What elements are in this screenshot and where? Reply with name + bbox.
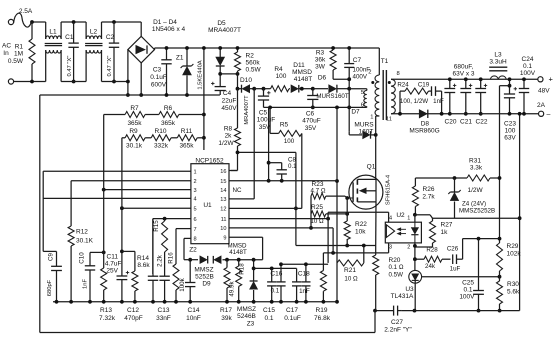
svg-text:3W: 3W [315,64,326,71]
svg-text:R9: R9 [129,128,138,135]
svg-text:R27: R27 [441,222,453,229]
svg-text:1: 1 [194,170,197,176]
svg-text:100V: 100V [520,70,536,77]
svg-text:5.6k: 5.6k [507,289,520,296]
svg-text:C18: C18 [298,271,310,278]
svg-text:400V: 400V [353,74,368,81]
wire TL431 ref [422,276,500,278]
wire HV sense drop [203,48,205,150]
svg-text:16: 16 [220,169,226,175]
svg-text:C24: C24 [522,56,534,63]
svg-text:3: 3 [194,188,197,194]
svg-text:8.6k: 8.6k [137,262,150,269]
svg-text:7: 7 [194,227,197,233]
wire opto collector to pin11 line [328,211,389,213]
wire source line [296,245,376,247]
svg-text:MSR860G: MSR860G [409,128,439,135]
svg-text:0.1uF: 0.1uF [150,74,167,81]
wire pin6 to C12 [153,218,191,220]
svg-text:R22: R22 [355,221,367,228]
svg-text:MMSZ: MMSZ [194,267,213,274]
svg-text:C11: C11 [107,254,119,261]
wire top rail to R1 [33,21,46,23]
svg-text:0.1: 0.1 [264,315,273,322]
svg-text:100, 1/2W: 100, 1/2W [400,98,428,105]
svg-text:D9: D9 [202,281,211,288]
svg-text:5252B: 5252B [195,274,214,281]
wire VCC branch [238,151,296,153]
svg-text:0.5W: 0.5W [389,272,404,279]
svg-text:R16: R16 [168,252,175,264]
svg-text:1: 1 [370,115,373,121]
svg-text:1.5KE440A: 1.5KE440A [198,60,204,89]
wire R7 column [103,115,105,190]
svg-text:R26: R26 [423,186,435,193]
node line opto anode [415,214,430,216]
svg-text:12: 12 [220,207,226,213]
svg-text:C3: C3 [153,67,162,74]
svg-text:R30: R30 [507,281,519,288]
svg-text:10: 10 [220,226,226,232]
svg-text:R7: R7 [130,105,139,112]
svg-text:332k: 332k [154,143,169,150]
svg-text:0.1: 0.1 [463,287,472,294]
svg-text:R17: R17 [220,307,232,314]
svg-text:R10: R10 [155,128,167,135]
svg-text:Z1: Z1 [176,55,184,62]
svg-text:Z3: Z3 [247,320,255,327]
wire pin4 [43,197,191,199]
svg-text:600V: 600V [151,82,167,89]
svg-text:C20: C20 [445,119,457,126]
svg-text:100k: 100k [179,277,186,291]
svg-text:MMSZ: MMSZ [237,306,256,313]
wire bottom rail left [14,81,46,83]
wire C11 R14 node [122,250,135,252]
wire caps node line [281,263,328,265]
svg-text:L1: L1 [49,29,57,36]
svg-text:25V: 25V [106,268,118,275]
svg-text:MMSD: MMSD [292,69,312,76]
svg-text:In: In [3,50,9,57]
svg-text:365k: 365k [127,120,142,127]
wire bottom rail L1 to L2 [61,81,86,83]
svg-text:R8: R8 [224,126,233,133]
svg-text:10 Ω: 10 Ω [344,276,358,283]
svg-text:C21: C21 [460,119,472,126]
svg-text:6: 6 [194,217,197,223]
svg-text:Q1: Q1 [367,164,376,171]
frame outline [39,95,41,333]
wire pin2 to R12 [71,180,191,182]
svg-text:D10: D10 [240,77,252,84]
svg-text:0.5W: 0.5W [246,67,262,74]
svg-text:C12: C12 [127,307,139,314]
svg-text:2.5A: 2.5A [19,8,33,15]
svg-text:11: 11 [386,117,392,123]
wire VCC to C5 [254,88,263,90]
svg-text:560k: 560k [246,60,261,67]
svg-text:365k: 365k [179,143,194,150]
svg-text:D5: D5 [217,20,226,27]
svg-text:4: 4 [194,197,197,203]
svg-text:36k: 36k [315,57,326,64]
svg-text:102k: 102k [507,251,522,258]
svg-text:NC: NC [233,187,242,194]
svg-text:U1: U1 [203,202,212,209]
svg-text:30.1k: 30.1k [126,143,143,150]
svg-text:U2: U2 [396,212,405,219]
svg-text:4148T: 4148T [294,76,312,83]
svg-text:2k: 2k [225,133,233,140]
secondary ground bus [402,310,520,312]
wire pin7 to R16 [176,228,191,230]
wire R8 to pin16 [231,170,238,172]
svg-text:680uF,: 680uF, [454,64,474,71]
wire aux gnd column [336,107,338,301]
svg-text:9: 9 [223,236,226,242]
svg-text:C14: C14 [188,307,200,314]
wire bridge AC left vertex [127,50,129,95]
svg-text:R19: R19 [316,307,328,314]
svg-text:39k: 39k [221,315,232,322]
svg-text:49.9k: 49.9k [229,281,236,297]
svg-text:2: 2 [368,70,371,76]
svg-text:1nF: 1nF [299,288,310,295]
svg-text:R24: R24 [397,82,409,89]
svg-text:33nF: 33nF [156,315,171,322]
svg-text:1N5406 x 4: 1N5406 x 4 [152,26,186,33]
T1 secondary [390,78,392,80]
wire secondary bottom [391,113,450,115]
svg-text:7.32k: 7.32k [99,315,116,322]
svg-text:C15: C15 [263,307,275,314]
svg-text:2A: 2A [537,102,546,109]
svg-text:1: 1 [407,216,410,222]
AC input terminal top [8,19,13,24]
svg-text:4: 4 [389,216,392,222]
wire D5 cathode to R2 [220,73,237,75]
svg-text:C17: C17 [286,307,298,314]
svg-text:4.7uF: 4.7uF [105,261,122,268]
svg-text:L2: L2 [90,29,98,36]
svg-text:3.3k: 3.3k [470,165,483,172]
svg-text:100: 100 [284,138,295,145]
svg-text:1M: 1M [14,51,23,58]
wire Q1 gate line [345,196,353,198]
svg-text:3: 3 [389,245,392,251]
wire top rail L1 to C1 [61,21,86,23]
svg-text:–: – [547,111,551,118]
svg-text:15: 15 [220,179,226,185]
svg-text:2.2k: 2.2k [157,254,164,267]
svg-text:C23: C23 [504,121,516,128]
wire pin1 to C9 node [43,170,191,172]
svg-text:R31: R31 [469,158,481,165]
svg-text:C10: C10 [79,252,86,264]
svg-text:C25: C25 [462,280,474,287]
wire aux ground line [264,106,367,108]
svg-text:R5: R5 [280,122,289,129]
fuse F1 2.5A [14,13,34,27]
svg-text:C26: C26 [447,246,459,253]
svg-text:63V: 63V [504,135,516,142]
AC input terminal bottom [8,79,13,84]
wire pin10 to opto emitter line [229,227,333,229]
svg-text:1uF: 1uF [450,266,461,273]
svg-text:L3: L3 [494,52,502,59]
svg-text:2: 2 [194,179,197,185]
svg-text:3.3uH: 3.3uH [489,59,507,66]
svg-text:4148T: 4148T [229,249,247,256]
svg-text:11: 11 [221,217,227,223]
wire pin16 stub [229,170,238,172]
svg-text:5: 5 [194,207,197,213]
svg-text:MURS: MURS [354,122,374,129]
svg-text:0.1: 0.1 [288,163,297,170]
wire pin8 to Z2 row [184,237,191,239]
wire +48V sense drop [500,85,510,87]
svg-text:Z4 (24V): Z4 (24V) [462,201,486,208]
svg-text:D6: D6 [318,75,327,82]
svg-text:R29: R29 [507,243,519,250]
svg-text:2: 2 [407,245,410,251]
svg-text:35V: 35V [305,125,317,132]
wire pin12 [229,207,302,209]
svg-text:R21: R21 [344,267,356,274]
svg-text:R6: R6 [164,105,173,112]
svg-text:C22: C22 [476,119,488,126]
svg-text:63V x 3: 63V x 3 [452,71,474,78]
svg-text:76.8k: 76.8k [314,315,331,322]
svg-text:24k: 24k [425,263,436,270]
svg-text:R2: R2 [246,53,255,60]
svg-text:C9: C9 [48,252,55,260]
svg-text:C2: C2 [106,34,115,41]
svg-text:R20: R20 [389,257,401,264]
svg-text:5246B: 5246B [237,313,256,320]
svg-text:48V: 48V [538,88,550,95]
wire pin5 to R9 C11 node [122,207,191,209]
svg-text:1nF: 1nF [83,279,89,289]
svg-text:1nF: 1nF [433,98,444,105]
svg-text:14: 14 [220,188,226,194]
svg-text:MRA4007T: MRA4007T [208,27,241,34]
wire pin15 ground line [229,180,337,182]
svg-text:13: 13 [220,197,226,203]
wire top rail L2 to bridge [102,21,142,23]
svg-text:10nF: 10nF [186,315,201,322]
svg-text:0.1uF: 0.1uF [284,315,301,322]
svg-text:AC: AC [2,43,11,50]
wire Z3 node to C15 C17 [254,267,297,269]
svg-text:100uF: 100uF [257,117,275,124]
svg-text:D8: D8 [421,121,430,128]
wire R25 to gate [346,198,348,221]
svg-text:2.7k: 2.7k [422,194,435,201]
svg-text:0.47 "X": 0.47 "X" [67,56,73,77]
resistor R1 [29,39,35,64]
svg-text:R13: R13 [100,307,112,314]
svg-text:Z2: Z2 [189,247,197,254]
svg-text:+: + [549,75,554,84]
svg-text:MRA4007T: MRA4007T [244,95,250,125]
wire pin11 to opto [229,218,328,220]
svg-text:0.47 "X": 0.47 "X" [107,56,113,77]
svg-text:0.1 Ω: 0.1 Ω [389,264,404,271]
wire pin3 to R7 R13 node [104,189,191,191]
svg-text:365k: 365k [161,120,176,127]
svg-text:R28: R28 [426,247,438,254]
svg-text:10k: 10k [355,229,366,236]
wire pin13 VCC [229,198,254,200]
svg-text:SFH615A-4: SFH615A-4 [386,174,392,205]
T1 core [382,70,384,120]
svg-text:R3: R3 [316,50,325,57]
svg-text:C19: C19 [418,82,430,89]
svg-text:C13: C13 [158,307,170,314]
svg-text:R12: R12 [76,229,88,236]
wire output bottom rail [450,113,541,115]
svg-text:100: 100 [505,128,516,135]
svg-text:C6: C6 [306,111,315,118]
svg-text:D1 – D4: D1 – D4 [153,19,177,26]
svg-text:R4: R4 [274,66,283,73]
svg-text:1k: 1k [441,229,449,236]
wire secondary top to output rail [391,78,540,80]
wire VCC down to pin13 [253,89,255,199]
svg-text:T1: T1 [381,58,389,65]
DC minus rail [40,94,220,96]
wire Q1 drain to T1 pin1 [375,135,377,180]
wire pin9 to Z2 row [229,236,263,238]
svg-text:1/2W: 1/2W [468,187,484,194]
svg-text:100V: 100V [459,294,475,301]
svg-text:C1: C1 [65,34,74,41]
svg-text:1/2W: 1/2W [218,140,234,147]
wire bottom rail C2 to bridge [102,81,128,83]
svg-text:470uF: 470uF [302,118,320,125]
svg-text:R1: R1 [15,44,24,51]
output terminal positive 48V [538,77,543,82]
svg-text:8: 8 [397,71,400,77]
svg-text:2.2nF "Y": 2.2nF "Y" [384,327,412,334]
svg-text:0.1: 0.1 [271,288,280,295]
svg-text:0.5W: 0.5W [8,58,24,65]
svg-text:100: 100 [276,73,287,80]
svg-text:680pF: 680pF [47,279,53,296]
wire bridge negative vertex [140,63,142,95]
svg-text:470pF: 470pF [124,315,142,322]
svg-text:R15: R15 [153,220,160,232]
svg-text:D7: D7 [351,109,360,116]
svg-text:C5: C5 [259,110,268,117]
svg-text:TL431A: TL431A [391,293,414,300]
svg-text:C27: C27 [391,319,403,326]
wire opto emitter line [323,252,388,254]
svg-text:0.1: 0.1 [523,63,532,70]
wire DC plus rail [154,48,156,50]
svg-text:MMSZ5252B: MMSZ5252B [459,208,495,215]
wire 0V sense drop [519,114,521,311]
svg-text:8: 8 [194,237,197,243]
wire C25 R29 node line [463,238,500,240]
svg-text:22uF: 22uF [222,98,237,105]
primary ground bus [53,301,337,303]
svg-text:D11: D11 [293,62,305,69]
svg-text:MURS160T: MURS160T [316,93,349,100]
svg-text:450V: 450V [221,105,237,112]
svg-text:30.1K: 30.1K [76,238,94,245]
svg-text:R14: R14 [137,255,149,262]
wire frame to chassis [374,311,376,333]
svg-text:R11: R11 [181,128,193,135]
